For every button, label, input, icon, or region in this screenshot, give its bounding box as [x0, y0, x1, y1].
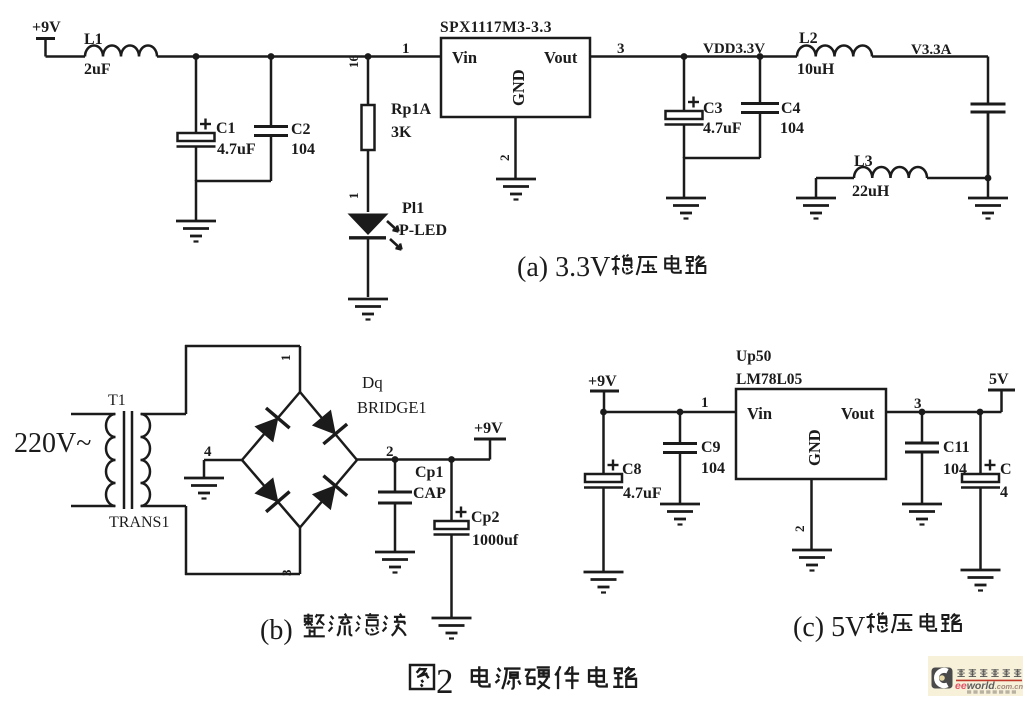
wire bridge right output — [357, 458, 490, 461]
wire C5 to node L3 — [987, 112, 990, 198]
junction node Rp1A — [365, 53, 372, 60]
op-amp U2 LM78L05 regulator box — [736, 389, 886, 479]
wire bridge right-bottom vertical — [299, 528, 302, 575]
ground C12 — [961, 570, 1001, 591]
wire U2 GND pin — [810, 479, 813, 549]
wire to ground (C3/C4) — [683, 157, 686, 197]
wire L1 to node C1 — [157, 55, 196, 58]
svg-text:(c) 5V: (c) 5V — [793, 612, 865, 643]
svg-text:1: 1 — [402, 41, 410, 57]
svg-text:C3: C3 — [703, 100, 723, 117]
svg-text:+9V: +9V — [588, 373, 617, 390]
ground L3 left — [796, 198, 836, 219]
svg-text:Dq: Dq — [362, 373, 383, 392]
wire to ground (C1/C2) — [195, 180, 198, 220]
power terminal +9V (section a) — [36, 39, 55, 57]
wire U1 Vout to node C3 — [590, 55, 684, 58]
svg-text:C: C — [1000, 461, 1012, 478]
svg-text:eeworld.com.cn: eeworld.com.cn — [955, 680, 1023, 692]
wire primary bottom lead — [71, 505, 115, 508]
junction node C1 — [193, 53, 200, 60]
svg-text:Pl1: Pl1 — [402, 200, 424, 217]
capacitor C1 (polarized 4.7uF) — [177, 57, 216, 182]
diode D3 (left to bottom) — [255, 478, 289, 512]
svg-text:4.7uF: 4.7uF — [703, 120, 742, 137]
svg-text:LM78L05: LM78L05 — [736, 371, 803, 388]
diode D2 (top to right) — [313, 411, 347, 444]
watermark logo eeworld C mark — [932, 668, 953, 689]
junction node C9 — [677, 409, 684, 416]
svg-text:Vin: Vin — [452, 48, 477, 67]
wire secondary top lead — [141, 413, 186, 416]
watermark logo red underline — [956, 679, 1022, 681]
wire +9V to node C8 — [604, 411, 680, 414]
svg-text:P-LED: P-LED — [399, 222, 447, 239]
wire bridge bottom rail — [185, 573, 300, 576]
wire node C1 to node C2 — [196, 55, 271, 58]
wire diamond edge top-left — [242, 392, 300, 460]
wire primary top lead — [71, 413, 115, 416]
svg-text:5V: 5V — [989, 371, 1009, 388]
capacitor C11 (104) — [905, 412, 939, 503]
op-amp U1 SPX1117M3-3.3 regulator box — [441, 38, 590, 117]
svg-text:C8: C8 — [622, 461, 642, 478]
ground U2 — [792, 550, 832, 571]
svg-text:C2: C2 — [291, 121, 311, 138]
wire diamond edge bottom-right — [300, 460, 357, 528]
capacitor C4 (104) — [741, 57, 779, 159]
svg-text:T1: T1 — [108, 392, 126, 409]
junction node L3 — [985, 175, 992, 182]
svg-text:1: 1 — [701, 395, 709, 411]
svg-text:1: 1 — [278, 355, 293, 362]
wire +9V to L1 — [46, 55, 86, 58]
svg-text:Up50: Up50 — [736, 348, 772, 365]
svg-text:SPX1117M3-3.3: SPX1117M3-3.3 — [440, 19, 552, 36]
svg-text:1000uf: 1000uf — [472, 532, 519, 549]
svg-text:3: 3 — [617, 41, 625, 57]
svg-text:22uH: 22uH — [852, 183, 890, 200]
svg-text:4: 4 — [204, 444, 212, 460]
svg-text:2uF: 2uF — [84, 61, 111, 78]
svg-text:GND: GND — [805, 429, 824, 466]
svg-text:+9V: +9V — [32, 19, 61, 36]
svg-text:C9: C9 — [701, 439, 721, 456]
junction node C3 — [681, 53, 688, 60]
svg-text:2: 2 — [497, 155, 512, 162]
svg-text:Cp1: Cp1 — [415, 464, 443, 481]
svg-text:(b): (b) — [260, 615, 293, 646]
svg-text:4.7uF: 4.7uF — [623, 485, 662, 502]
wire node C4 to L2 — [760, 55, 797, 58]
wire diamond edge top-right — [300, 392, 357, 460]
wire bridge top rail — [185, 345, 300, 348]
svg-text:10uH: 10uH — [797, 61, 835, 78]
wire node C9 to U2 Vin — [680, 411, 736, 414]
watermark logo chinese 电子工程世界 — [957, 669, 1021, 677]
transformer T1 primary coil — [106, 414, 116, 506]
svg-text:2: 2 — [792, 526, 807, 533]
svg-text:C11: C11 — [943, 439, 970, 456]
svg-text:V3.3A: V3.3A — [911, 42, 952, 58]
svg-text:3: 3 — [279, 569, 294, 576]
ground bridge left — [184, 478, 224, 499]
wire U2 Vout to node C11 — [886, 411, 922, 414]
power terminal 5V — [988, 390, 1015, 412]
svg-text:4: 4 — [1000, 484, 1008, 501]
inductor L3 — [854, 167, 927, 178]
svg-text:C4: C4 — [781, 100, 801, 117]
svg-text:16: 16 — [346, 55, 361, 69]
wire L2 to corner — [872, 55, 988, 58]
diode D1 (left to top) — [255, 408, 289, 442]
svg-text:GND: GND — [509, 69, 528, 106]
transformer T1 secondary coil — [141, 414, 151, 506]
power terminal +9V (section b) — [474, 439, 506, 460]
wire U1 GND pin — [514, 117, 517, 178]
wire node C12 to 5V corner — [980, 411, 1002, 414]
wire corner down to C5 — [987, 57, 990, 105]
svg-text:104: 104 — [291, 141, 315, 158]
wire C3/C4 common bottom — [684, 157, 760, 160]
svg-text:4.7uF: 4.7uF — [217, 141, 256, 158]
ground C8 — [584, 572, 624, 593]
junction node C2 — [268, 53, 275, 60]
caption (c) chinese 稳压电路 — [867, 613, 961, 634]
svg-text:(a) 3.3V: (a) 3.3V — [517, 252, 610, 283]
svg-text:Vin: Vin — [747, 404, 772, 423]
wire C1/C2 common bottom — [196, 180, 271, 183]
ground C9 — [660, 504, 700, 525]
figure caption 图2 glyph — [410, 665, 434, 689]
svg-text:TRANS1: TRANS1 — [109, 514, 169, 531]
svg-text:104: 104 — [780, 120, 804, 137]
capacitor C3 (polarized 4.7uF) — [665, 57, 704, 159]
svg-text:BRIDGE1: BRIDGE1 — [357, 398, 427, 417]
wire node Rp1A to pin 1 of U1 — [368, 55, 441, 58]
junction node Cp1 — [392, 456, 399, 463]
wire L3 left lead — [816, 177, 854, 180]
ground Cp1 — [375, 552, 415, 573]
capacitor C2 (104) — [254, 57, 288, 182]
watermark logo slogan dashes — [967, 690, 1016, 693]
ground U1 — [496, 179, 536, 200]
wire L3 right lead — [927, 177, 988, 180]
wire bridge left-bottom vertical — [185, 506, 188, 575]
junction node C11 — [919, 409, 926, 416]
inductor L1 — [85, 46, 157, 57]
capacitor Cp2 (1000uf) — [434, 460, 470, 618]
svg-text:CAP: CAP — [413, 485, 446, 502]
ground C3/C4 — [666, 198, 706, 219]
svg-text:3K: 3K — [391, 124, 412, 141]
ground C1/C2 — [176, 221, 216, 242]
ground LED — [348, 299, 388, 320]
wire bridge left output — [204, 459, 242, 462]
watermark logo eeworld background — [928, 656, 1023, 696]
svg-text:220V~: 220V~ — [14, 428, 91, 459]
caption (b) chinese 整流滤波 — [304, 613, 406, 636]
svg-text:VDD3.3V: VDD3.3V — [703, 41, 765, 57]
svg-text:C1: C1 — [216, 120, 236, 137]
svg-text:Vout: Vout — [544, 48, 578, 67]
svg-text:1: 1 — [346, 193, 361, 200]
power terminal +9V (section c) — [590, 391, 619, 412]
inductor L2 — [797, 46, 872, 57]
junction node Cp2 — [448, 456, 455, 463]
ground Cp2 — [432, 618, 472, 639]
capacitor C8 (polarized 4.7uF) — [584, 412, 623, 571]
junction node C8 — [600, 409, 607, 416]
svg-text:Rp1A: Rp1A — [391, 101, 431, 118]
svg-text:2: 2 — [436, 662, 454, 701]
capacitor C9 (104) — [663, 412, 697, 503]
junction node C4 — [757, 53, 764, 60]
svg-text:104: 104 — [701, 460, 725, 477]
svg-text:Cp2: Cp2 — [471, 509, 499, 526]
svg-text:Vout: Vout — [841, 404, 875, 423]
wire bridge right-top vertical — [299, 346, 302, 392]
wire bridge left-top vertical — [185, 345, 188, 414]
diode D4 (bottom to right) — [313, 476, 347, 510]
junction node C12 — [977, 409, 984, 416]
wire secondary bottom lead — [141, 505, 186, 508]
ground C11 — [902, 504, 942, 525]
wire diamond edge bottom-left — [242, 460, 300, 528]
LED Pl1 — [348, 214, 402, 298]
capacitor C5 (output filter) — [971, 103, 1006, 178]
wire node C2 to node Rp1A — [271, 55, 368, 58]
wire bridge left to ground — [203, 460, 206, 477]
ground L3 right — [968, 198, 1008, 219]
wire node C11 to node C12 — [922, 411, 980, 414]
capacitor C12 (polarized, edge-clipped) — [961, 412, 1000, 569]
figure caption 电源硬件电路 — [472, 666, 636, 689]
capacitor Cp1 (CAP) — [378, 460, 412, 552]
transformer T1 core — [124, 411, 132, 509]
wire node C3 to node C4 — [684, 55, 760, 58]
svg-text:+9V: +9V — [474, 420, 503, 437]
wire L3 left down — [815, 178, 818, 197]
resistor Rp1A — [362, 57, 375, 213]
caption (a) chinese 稳压电路 — [612, 255, 706, 276]
